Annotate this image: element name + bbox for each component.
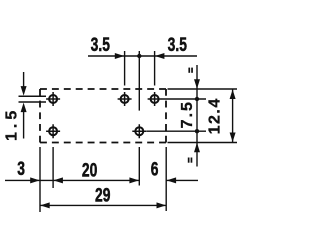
bottom dimension line (3 / 20) xyxy=(5,179,139,181)
svg-text:3.5: 3.5 xyxy=(91,34,110,56)
label 3.5 left xyxy=(91,34,110,56)
label 6 xyxy=(151,158,159,180)
12.4 dimension line xyxy=(232,90,234,143)
arrow right at x=124.6 xyxy=(115,53,125,59)
hole E (bottom-middle) xyxy=(132,124,146,138)
hole C (top-right) xyxy=(148,92,162,106)
7.5 dimension line with dots xyxy=(196,65,198,167)
arrow left at x=154.6 xyxy=(155,53,165,59)
bottom extension line x=166 xyxy=(165,147,167,211)
svg-text:20: 20 xyxy=(82,159,97,181)
svg-text:3: 3 xyxy=(17,158,25,180)
right extension line bottom hole row xyxy=(147,130,207,132)
right extension line top hole row xyxy=(162,98,207,100)
equals mark bottom xyxy=(188,158,193,163)
bottom dimension line (6) right part xyxy=(166,179,198,181)
bottom extension line x=53 xyxy=(52,147,54,188)
hole B (top-middle) xyxy=(118,92,132,106)
right extension line rect bottom xyxy=(168,142,238,144)
label 12.4 (rotated) xyxy=(207,97,224,134)
svg-text:29: 29 xyxy=(95,184,110,206)
label 3.5 right xyxy=(168,34,187,56)
equals mark top xyxy=(188,68,193,73)
label 1.5 (rotated) xyxy=(4,107,21,141)
top dimension line (3.5 / 3.5) xyxy=(88,55,197,57)
svg-text:1.5: 1.5 xyxy=(4,107,21,141)
label 29 xyxy=(95,184,110,206)
hole A (top-left) xyxy=(46,92,60,106)
relay outline dashed rectangle xyxy=(40,89,166,143)
bottom extension line x=40 xyxy=(39,147,41,212)
svg-text:6: 6 xyxy=(151,158,159,180)
29 dimension line xyxy=(40,204,166,206)
hole D (bottom-left) xyxy=(46,124,60,138)
extension line hole C column xyxy=(154,51,156,86)
svg-text:12.4: 12.4 xyxy=(207,97,224,134)
left dimension 1.5 (hole diameter) xyxy=(23,72,25,87)
label 3 xyxy=(17,158,25,180)
center dot xyxy=(137,54,141,58)
label 20 xyxy=(82,159,97,181)
extension line hole B column xyxy=(124,51,126,86)
bottom extension line x=139 xyxy=(138,147,140,186)
svg-text:7.5: 7.5 xyxy=(179,100,196,128)
extension line center (hole E column) xyxy=(138,51,140,111)
svg-text:3.5: 3.5 xyxy=(168,34,187,56)
right extension line rect top xyxy=(168,88,238,90)
label 7.5 (rotated) xyxy=(179,100,196,128)
